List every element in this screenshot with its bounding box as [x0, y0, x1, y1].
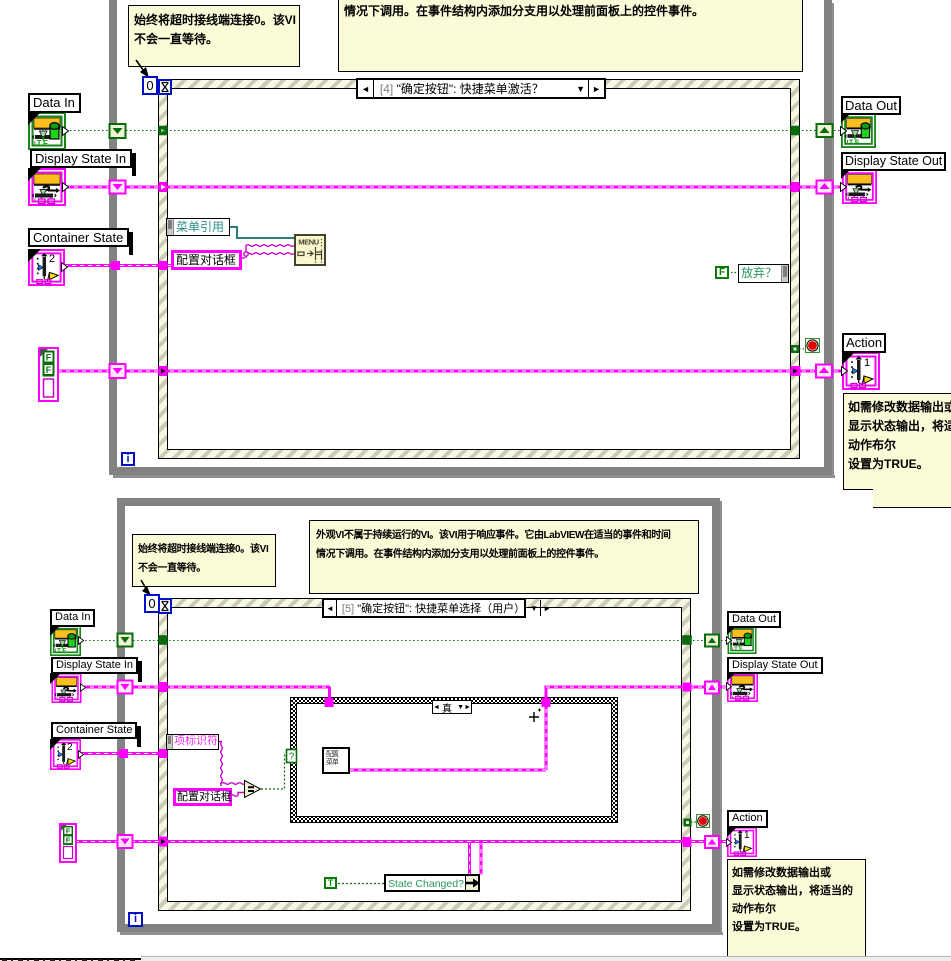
tunnel green struct1 right — [791, 126, 800, 135]
label Container State loop1 — [28, 228, 129, 247]
wire action magenta loop2 — [75, 840, 727, 843]
iteration terminal loop1 — [121, 452, 135, 466]
shift register magenta down display loop1 — [110, 181, 126, 194]
equals node — [244, 780, 262, 798]
event structure 2 — [158, 598, 691, 911]
tunnel magenta action struct1 right — [791, 366, 801, 376]
iteration terminal loop2 — [128, 912, 143, 927]
timeout hourglass terminal struct2 — [158, 598, 172, 614]
comment box 1 (timeout note, loop1) — [128, 5, 300, 67]
wire true-const dotted green loop2 — [338, 883, 384, 885]
case selector label struct2 — [322, 598, 526, 618]
wire display-state magenta loop1 — [66, 186, 842, 189]
tunnel green struct2 right — [683, 636, 692, 645]
shift register magenta up display loop2 — [705, 682, 719, 694]
tunnel magenta display struct1 left — [159, 182, 168, 192]
shift register magenta up display loop1 — [817, 181, 833, 194]
case selector label struct1 — [356, 78, 606, 99]
annotation arrow 2 — [141, 580, 151, 596]
shift register magenta down display loop2 — [118, 681, 133, 694]
wire data green loop2 — [81, 640, 726, 642]
svg-text:F: F — [66, 827, 71, 836]
while loop 1 left border — [109, 0, 117, 475]
tunnel magenta case-struct top left — [325, 698, 334, 707]
comment box 4 (timeout note, loop2) — [132, 534, 276, 587]
while loop 1 bottom border — [109, 467, 832, 475]
svg-text:F: F — [46, 353, 52, 363]
while loop 2 right border — [712, 498, 720, 932]
label Container State loop2 — [51, 722, 137, 739]
while loop 1 shadow — [113, 475, 835, 478]
svg-text:F: F — [66, 836, 71, 845]
tunnel green struct1 left — [159, 126, 168, 135]
tunnel green stop struct2 right — [684, 819, 692, 827]
wire data green loop1 — [66, 130, 842, 132]
svg-text:?: ? — [289, 752, 295, 763]
bundle node State Changed? — [384, 874, 480, 892]
label Display State In loop2 — [51, 657, 138, 674]
wire stop dotted green loop2 — [691, 821, 697, 823]
wire branch to bundle node magenta — [470, 843, 482, 875]
shift register magenta up action loop1 — [816, 365, 832, 378]
svg-text:F: F — [46, 365, 52, 375]
shift register magenta down action loop1 — [110, 364, 126, 378]
label Action loop1 — [842, 333, 886, 353]
true constant loop2 — [324, 877, 337, 889]
terminal Container State loop2 — [50, 739, 81, 770]
FF boolean constant loop1 — [38, 347, 59, 402]
label Display State Out loop2 — [727, 657, 823, 674]
shift register magenta up action loop2 — [705, 836, 719, 848]
stop button loop1 — [805, 338, 820, 353]
event structure 1 — [158, 79, 800, 459]
wire stop dotted green loop1 — [799, 348, 806, 350]
tunnel magenta display struct2 left — [159, 682, 168, 692]
wire wavy config-dialog to MENU — [240, 245, 294, 258]
shift register magenta down action loop2 — [118, 835, 133, 848]
bottom window strip — [0, 956, 951, 961]
shift register green up loop1 — [817, 124, 833, 137]
timeout constant 0 loop2 — [144, 594, 160, 613]
label Data Out loop2 — [727, 611, 781, 628]
terminal Display State In loop2 — [50, 673, 83, 703]
comment box 2 (appearance note, loop1, cut top) — [338, 0, 803, 72]
terminal Data In loop1 — [28, 112, 66, 150]
tunnel magenta container struct1 left — [159, 261, 168, 270]
label item tag loop2 — [166, 734, 219, 750]
terminal Display State Out loop1 — [841, 169, 878, 204]
label discard — [738, 264, 789, 283]
tunnel container on loop2 border — [119, 749, 128, 758]
label config dialog loop2 — [173, 788, 232, 806]
tunnel magenta display struct1 right — [791, 182, 800, 192]
MENU node — [294, 234, 326, 266]
wire equals to case selector dotted green — [261, 755, 289, 789]
FF boolean constant loop2 — [59, 823, 77, 863]
stop button loop2 — [696, 814, 710, 828]
wire inside case structure magenta — [348, 707, 546, 770]
discard F constant — [715, 266, 729, 279]
annotation arrow 1 — [136, 60, 149, 78]
while loop 2 top border — [117, 498, 720, 506]
tunnel green stop struct1 right — [791, 345, 799, 353]
label Data In loop1 — [28, 93, 81, 113]
label Display State In loop1 — [30, 149, 132, 168]
tunnel container on loop1 border — [111, 261, 120, 270]
wire action magenta loop1 — [58, 370, 842, 373]
wire display-state magenta loop2 left — [82, 687, 330, 698]
shift register green down loop2 — [118, 634, 133, 647]
while loop 1 right border — [824, 0, 832, 478]
label menu reference — [166, 218, 230, 236]
case structure (true case) — [290, 697, 618, 823]
wire wavy config-dialog2 to equals — [230, 793, 244, 797]
terminal Data In loop2 — [50, 625, 81, 656]
label Display State Out loop1 — [841, 152, 946, 171]
timeout constant 0 loop1 — [142, 76, 158, 95]
comment box 5 (appearance note, loop2) — [309, 520, 699, 594]
while loop 2 left border — [117, 498, 125, 932]
cursor crosshair — [529, 709, 541, 723]
config menu node — [322, 747, 350, 774]
wire menu-ref teal loop1 — [230, 227, 294, 238]
wire discard dotted green loop1 — [731, 272, 739, 274]
terminal Action loop2 — [727, 827, 757, 857]
shift register green down loop1 — [110, 124, 126, 138]
wire display-state magenta loop2 right — [545, 687, 728, 698]
terminal Display State In loop1 — [28, 168, 66, 206]
wire wavy item-tag to equals — [217, 742, 246, 787]
while loop 2 bottom border — [117, 924, 720, 932]
shift register green up loop2 — [705, 635, 719, 647]
terminal Action loop1 — [842, 352, 880, 390]
tunnel magenta display struct2 right — [683, 683, 692, 692]
tunnel green struct2 left — [159, 636, 168, 645]
tunnel magenta container struct2 left — [159, 749, 168, 758]
timeout hourglass terminal struct1 — [158, 79, 172, 95]
case selector terminal question-mark — [287, 750, 297, 763]
tunnel magenta action struct2 right — [683, 837, 692, 847]
terminal Display State Out loop2 — [727, 671, 758, 702]
case selector label true-case — [432, 700, 472, 714]
svg-text:MENU: MENU — [298, 238, 318, 247]
while loop 2 shadow — [720, 501, 722, 935]
tunnel magenta action struct1 left — [159, 366, 168, 376]
terminal Container State loop1 — [28, 249, 65, 286]
wire container-state magenta loop1 — [64, 264, 171, 267]
label Action loop2 — [727, 810, 768, 828]
wire container-state magenta loop2 — [80, 752, 167, 755]
tunnel magenta case-struct top right — [542, 698, 551, 707]
tunnel magenta action struct2 left — [159, 837, 168, 847]
terminal Data Out loop1 — [841, 113, 876, 148]
label Data In loop2 — [50, 609, 95, 627]
comment box 6 (action note, loop2 right) — [727, 859, 866, 961]
terminal Data Out loop2 — [727, 625, 757, 654]
comment box 3 (action note, loop1 right, clipped) — [843, 393, 951, 490]
label Data Out loop1 — [841, 96, 901, 115]
label config dialog loop1 — [171, 250, 242, 270]
